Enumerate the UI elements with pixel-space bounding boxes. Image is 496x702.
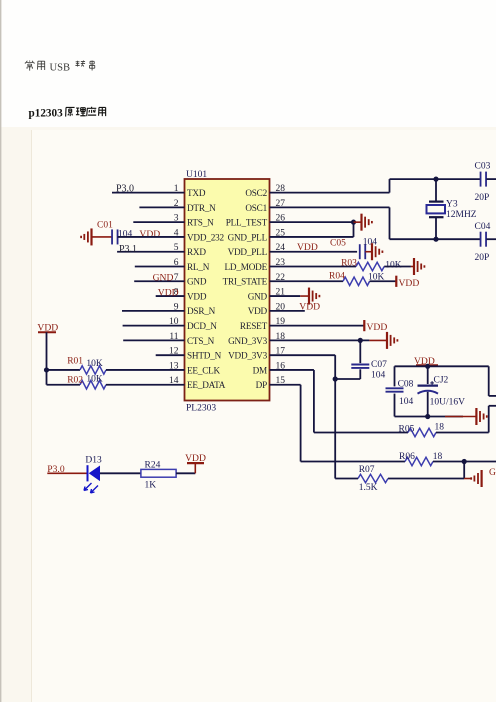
wire to R01 <box>47 369 81 371</box>
wire stub pin18 ground <box>369 339 387 341</box>
wire pin11 CTS_N <box>123 339 184 341</box>
wire R04 to VDD <box>370 280 396 282</box>
svg-text:VDD: VDD <box>139 229 160 240</box>
wire pin15 DP <box>270 384 301 386</box>
node pin25/26 tie <box>351 220 356 225</box>
wire pin12 SHTD_N <box>156 354 185 356</box>
wire pin26 to ground <box>354 221 362 223</box>
ground for C01 <box>90 228 92 245</box>
svg-text:GND_PLL: GND_PLL <box>228 232 268 242</box>
capacitor C04 <box>480 232 482 247</box>
svg-text:C03: C03 <box>475 162 491 172</box>
node C07/pin17 <box>333 376 338 381</box>
wire C08 bottom <box>394 394 396 417</box>
svg-text:GND: GND <box>248 291 268 301</box>
wire pin17 vertical <box>334 355 336 478</box>
wire DP junction down <box>463 462 465 479</box>
wire pin26 to pin25 <box>353 222 355 237</box>
power VDD (pin22) <box>395 276 397 287</box>
ground pin18 <box>386 332 388 349</box>
power VDD (R24) <box>194 463 196 473</box>
ground C05 <box>371 243 373 260</box>
wire ground to C01 <box>92 236 112 238</box>
svg-text:20P: 20P <box>475 193 490 203</box>
svg-text:10K: 10K <box>86 359 103 369</box>
svg-text:R05: R05 <box>399 425 415 435</box>
wire pin2 DTR_N <box>139 206 184 208</box>
svg-text:VDD: VDD <box>187 291 207 301</box>
svg-text:104: 104 <box>371 371 386 381</box>
svg-text:D13: D13 <box>85 455 102 465</box>
wire DM to R05 <box>314 432 408 434</box>
resistor R07 <box>358 474 388 482</box>
wire pin5 RXD <box>117 251 184 253</box>
svg-text:EE_CLK: EE_CLK <box>187 365 221 375</box>
svg-text:12MHZ: 12MHZ <box>446 210 477 220</box>
wire R24 to VDD <box>176 472 195 474</box>
ground 3V3 box <box>475 408 477 425</box>
wire P3.0 to D13 <box>47 472 87 474</box>
svg-text:EE_DATA: EE_DATA <box>187 380 226 390</box>
svg-text:RXD: RXD <box>187 247 206 257</box>
svg-text:p12303: p12303 <box>29 108 64 120</box>
resistor R24 (box) <box>141 469 176 477</box>
svg-text:RL_N: RL_N <box>187 262 210 272</box>
LED D13 <box>87 465 89 481</box>
svg-text:18: 18 <box>433 452 443 462</box>
wire R07 right segment <box>388 478 464 480</box>
svg-text:VDD: VDD <box>297 242 318 253</box>
node DP/R07 <box>462 459 467 464</box>
capacitor C05 <box>359 244 361 259</box>
svg-text:18: 18 <box>435 422 445 432</box>
wire pin20 VDD <box>270 310 305 312</box>
resistor R02 <box>80 381 106 389</box>
svg-text:VDD: VDD <box>299 302 320 313</box>
capacitor C07 <box>351 364 369 366</box>
svg-text:10K: 10K <box>385 260 402 270</box>
svg-text:U101: U101 <box>186 170 207 180</box>
svg-text:DSR_N: DSR_N <box>187 306 216 316</box>
svg-text:R01: R01 <box>67 356 83 366</box>
svg-text:C05: C05 <box>330 238 346 248</box>
wire R05 right <box>436 432 489 434</box>
page left edge <box>0 0 2 702</box>
wire stub box ground <box>445 416 476 418</box>
document title line 1 <box>25 61 95 74</box>
wire pin7 GND <box>134 280 184 282</box>
svg-text:PL2303: PL2303 <box>186 404 216 414</box>
svg-text:104: 104 <box>363 237 378 247</box>
wire OSC1 vertical <box>389 207 391 239</box>
wire pin16 DM <box>270 369 314 371</box>
wire C03 to edge <box>486 178 496 180</box>
wire R02 to pin14 <box>106 384 185 386</box>
svg-text:R02: R02 <box>67 376 83 386</box>
wire to R02 <box>47 384 81 386</box>
svg-text:GND: GND <box>187 277 207 287</box>
svg-text:R03: R03 <box>341 258 357 268</box>
wire pin17 VDD_3V3 <box>270 354 336 356</box>
svg-text:P3.1: P3.1 <box>119 244 137 255</box>
wire C04 to edge <box>486 238 496 240</box>
wire rail right down <box>488 366 490 396</box>
svg-text:R07: R07 <box>359 465 375 475</box>
wire OSC1 bottom rail <box>390 238 481 240</box>
wire stub R03 ground <box>411 266 414 268</box>
resistor R04 <box>343 277 370 285</box>
resistor R01 <box>80 366 106 374</box>
svg-text:GN: GN <box>489 467 496 478</box>
resistor R03 <box>356 262 384 270</box>
wire pin9 DSR_N <box>122 310 185 312</box>
wire 3V3 bottom rail <box>395 416 464 418</box>
svg-text:CJ2: CJ2 <box>434 375 449 385</box>
wire stub pin21 ground <box>300 295 309 297</box>
capacitor C01 <box>111 229 113 244</box>
wire OSC2 top rail <box>390 178 481 180</box>
svg-text:R04: R04 <box>329 271 345 281</box>
capacitor C08 <box>386 387 404 389</box>
wire OSC2 vertical <box>389 179 391 193</box>
wire pin25 GND_PLL <box>270 236 354 238</box>
svg-text:RTS_N: RTS_N <box>187 218 214 228</box>
svg-text:GND: GND <box>153 272 174 283</box>
resistor R05 <box>408 428 436 436</box>
svg-text:Y3: Y3 <box>446 199 458 209</box>
wire pin21 GND <box>270 295 301 297</box>
ground R03 <box>413 258 415 275</box>
wire R03 to ground <box>384 266 411 268</box>
capacitor CJ2 electrolytic <box>427 366 429 384</box>
svg-text:OSC1: OSC1 <box>245 203 267 213</box>
svg-text:CTS_N: CTS_N <box>187 336 215 346</box>
svg-text:R24: R24 <box>145 460 161 470</box>
svg-text:C04: C04 <box>475 222 491 232</box>
svg-text:1K: 1K <box>145 481 157 491</box>
svg-text:VDD: VDD <box>158 288 179 299</box>
IC U101 PL2303 body <box>185 179 270 401</box>
node CJ2 bottom <box>425 414 430 419</box>
svg-text:USB: USB <box>50 63 71 74</box>
wire pin10 DCD_N <box>123 325 185 327</box>
wire pin18 to C07 <box>359 340 361 363</box>
wire pin19 RESET <box>270 325 364 327</box>
wire C05 to ground <box>365 251 372 253</box>
svg-text:R06: R06 <box>399 452 415 462</box>
svg-text:1.5K: 1.5K <box>359 483 378 493</box>
svg-text:VDD: VDD <box>185 453 206 464</box>
wire pin28 OSC2 <box>270 192 390 194</box>
wire C07 bottom <box>359 369 361 379</box>
power VDD (pin19) <box>363 320 365 331</box>
wire pin27 OSC1 <box>270 206 390 208</box>
svg-text:VDD_3V3: VDD_3V3 <box>228 351 268 361</box>
wire 3V3 top rail <box>395 365 489 367</box>
crystal Y3 12MHZ <box>435 179 437 202</box>
ground pin26 <box>360 214 362 231</box>
svg-text:PLL_TEST: PLL_TEST <box>226 218 268 228</box>
svg-text:DM: DM <box>253 365 267 375</box>
node R01/R02 junction <box>44 367 49 372</box>
wire pin18 GND_3V3 <box>270 339 370 341</box>
svg-text:OSC2: OSC2 <box>245 188 267 198</box>
svg-text:VDD: VDD <box>367 322 388 333</box>
wire pin22 TRI_STATE <box>270 280 344 282</box>
svg-text:DTR_N: DTR_N <box>187 203 216 213</box>
svg-text:DCD_N: DCD_N <box>187 321 217 331</box>
svg-text:VDD_232: VDD_232 <box>187 232 224 242</box>
svg-text:VDD: VDD <box>248 306 268 316</box>
wire pin26 PLL_TEST <box>270 221 354 223</box>
svg-text:SHTD_N: SHTD_N <box>187 351 222 361</box>
svg-text:RESET: RESET <box>240 321 268 331</box>
wire R01 to pin13 <box>106 369 185 371</box>
node CJ2 top <box>425 364 430 369</box>
svg-text:104: 104 <box>399 397 414 407</box>
wire pin8 VDD <box>156 295 185 297</box>
svg-text:P3.0: P3.0 <box>116 183 134 194</box>
resistor R06 <box>405 457 433 465</box>
ground pin21 <box>308 288 310 305</box>
wire pin23 LD_MODE <box>270 266 357 268</box>
svg-text:20P: 20P <box>475 253 490 263</box>
svg-text:C07: C07 <box>371 360 387 370</box>
wire C01 to pin4 <box>118 236 185 238</box>
schematic sheet area <box>31 130 496 702</box>
svg-text:10K: 10K <box>86 374 103 384</box>
svg-text:C01: C01 <box>97 220 113 230</box>
document title line 2 <box>29 107 106 120</box>
wire DP to R06 <box>301 461 405 463</box>
wire pin24 VDD_PLL <box>270 251 358 253</box>
wire D13 to R24 <box>100 472 141 474</box>
capacitor C03 <box>480 172 482 187</box>
svg-text:TRI_STATE: TRI_STATE <box>223 277 268 287</box>
wire pin6 RL_N <box>135 266 185 268</box>
svg-text:C08: C08 <box>398 379 414 389</box>
wire R06 right to edge <box>433 461 496 463</box>
wire ground stub bottom right <box>464 478 470 480</box>
wire DP vertical <box>300 385 302 462</box>
svg-text:VDD_PLL: VDD_PLL <box>228 247 268 257</box>
wire pin3 RTS_N <box>133 221 184 223</box>
node crystal top <box>433 177 438 182</box>
wire rail left down <box>394 366 396 386</box>
svg-text:GND_3V3: GND_3V3 <box>228 336 268 346</box>
wire pin1 TXD <box>112 192 185 194</box>
svg-text:LD_MODE: LD_MODE <box>225 262 268 272</box>
svg-text:VDD: VDD <box>399 278 420 289</box>
svg-text:DP: DP <box>256 380 267 390</box>
node pin18/C07 <box>358 338 363 343</box>
wire VDD rail down <box>46 332 48 385</box>
svg-text:TXD: TXD <box>187 188 206 198</box>
ground bottom right <box>481 470 483 487</box>
wire R07 left to pin17 net <box>335 478 358 480</box>
wire DM vertical <box>313 370 315 433</box>
svg-text:10U/16V: 10U/16V <box>430 397 466 407</box>
node crystal bottom <box>433 237 438 242</box>
